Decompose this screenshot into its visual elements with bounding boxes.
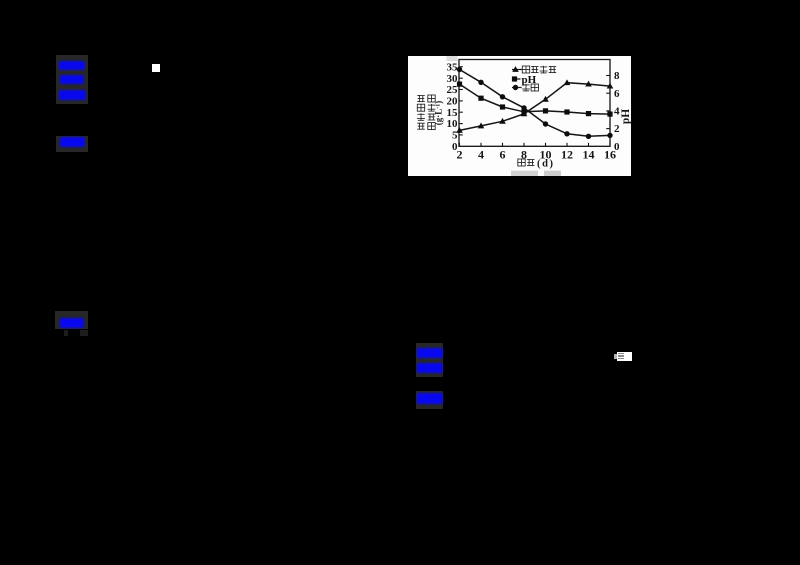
svg-text:20: 20 xyxy=(447,96,459,108)
markers: squares xyxy=(457,82,613,117)
faint residue marks under block C xyxy=(64,330,68,336)
svg-text:6: 6 xyxy=(500,148,506,162)
line: sucrose (circles) xyxy=(460,70,611,137)
svg-text:(d): (d) xyxy=(537,158,555,169)
svg-text:30: 30 xyxy=(447,73,459,85)
highlight block D (right column) xyxy=(416,343,443,377)
svg-text:10: 10 xyxy=(447,118,459,130)
line: pH (squares) xyxy=(460,84,611,114)
line: cell dry weight (triangles) xyxy=(460,83,611,131)
blue answer text line 7 xyxy=(417,363,443,373)
scanned line chart figure xyxy=(408,56,631,176)
highlight block E xyxy=(416,391,443,409)
blue answer text line 1 xyxy=(59,61,85,70)
blue answer text line 5 xyxy=(60,318,84,328)
svg-text:25: 25 xyxy=(447,84,459,96)
svg-text:16: 16 xyxy=(604,148,616,162)
scan smudge bottom2 xyxy=(544,171,561,176)
svg-text:4: 4 xyxy=(478,148,484,162)
svg-text:6: 6 xyxy=(614,88,620,100)
legend xyxy=(512,66,556,92)
small white square bullet xyxy=(152,64,160,72)
blue answer text line 3 xyxy=(59,90,86,100)
svg-text:14: 14 xyxy=(583,148,595,162)
axis ticks xyxy=(459,134,463,136)
markers: triangles xyxy=(456,79,613,133)
svg-text:pH: pH xyxy=(620,109,631,124)
svg-text:12: 12 xyxy=(561,148,573,162)
highlight block A (behind blue answers, top-left) xyxy=(56,55,88,104)
highlight block C xyxy=(55,311,88,329)
scan smudge bottom1 xyxy=(511,171,538,176)
svg-text:(g·L-1): (g·L-1) xyxy=(434,101,444,126)
small white patch with gray glyph (right) xyxy=(617,352,632,361)
svg-text:15: 15 xyxy=(447,107,459,119)
blue answer text line 4 xyxy=(60,137,85,147)
svg-text:2: 2 xyxy=(457,148,463,162)
svg-text:35: 35 xyxy=(447,61,459,73)
chart frame xyxy=(459,60,610,147)
scan smudge top xyxy=(447,56,458,61)
x axis title: time (d) xyxy=(518,159,525,166)
blue answer text line 6 xyxy=(417,348,443,358)
left axis title (sucrose conc / cell dry weight, g/L) xyxy=(417,95,425,97)
blue answer text line 8 xyxy=(417,393,443,404)
blue answer text line 2 xyxy=(60,75,84,84)
markers: circles xyxy=(457,67,613,139)
svg-text:8: 8 xyxy=(614,70,620,82)
highlight block B xyxy=(56,136,88,152)
